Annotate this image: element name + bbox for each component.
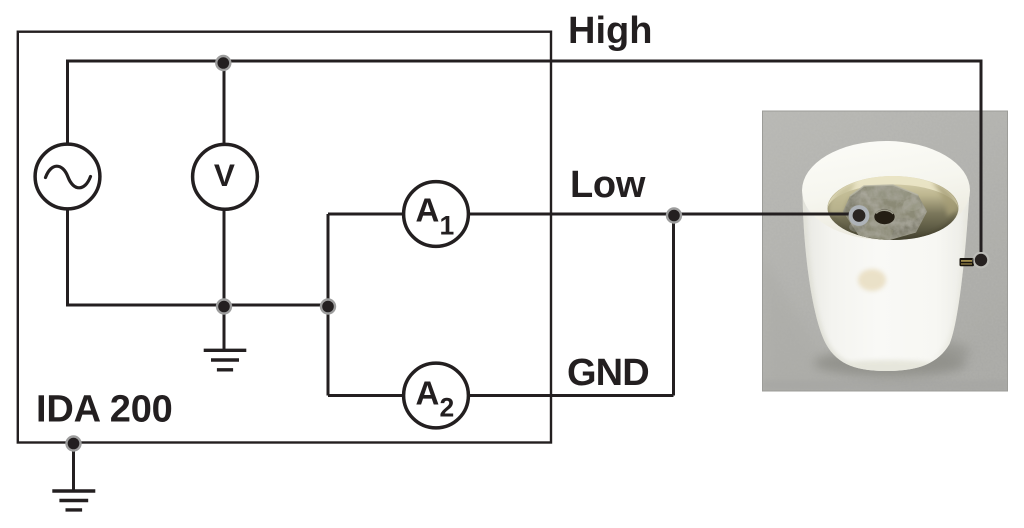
svg-text:Low: Low bbox=[570, 164, 646, 206]
svg-text:High: High bbox=[568, 10, 652, 52]
svg-text:1: 1 bbox=[440, 211, 455, 241]
svg-text:GND: GND bbox=[567, 352, 649, 394]
svg-text:A: A bbox=[416, 191, 440, 228]
svg-text:V: V bbox=[214, 157, 235, 193]
svg-text:2: 2 bbox=[440, 393, 455, 423]
svg-text:IDA 200: IDA 200 bbox=[36, 388, 173, 430]
svg-text:A: A bbox=[416, 375, 440, 412]
